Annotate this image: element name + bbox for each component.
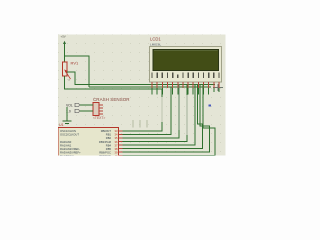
potentiometer RV1 bbox=[63, 62, 68, 76]
svg-text:OSC1/CLKIN: OSC1/CLKIN bbox=[60, 129, 76, 133]
wire mid rail bbox=[89, 86, 211, 88]
svg-text:RB6/PGC: RB6/PGC bbox=[99, 151, 111, 155]
blue origin marker bbox=[209, 104, 211, 106]
svg-text:35: 35 bbox=[115, 136, 118, 140]
pot wiper arrow bbox=[65, 71, 70, 79]
MCU U1 body bbox=[58, 128, 119, 168]
svg-text:LCD1: LCD1 bbox=[150, 37, 161, 42]
svg-text:RV1: RV1 bbox=[71, 61, 79, 66]
svg-text:CRASH SENSOR: CRASH SENSOR bbox=[93, 97, 130, 102]
LCD pin name glyph marks bbox=[152, 73, 219, 78]
wire bracket RB5 bbox=[123, 85, 203, 149]
power +5V symbol bbox=[64, 43, 66, 62]
svg-text:RB5: RB5 bbox=[106, 147, 112, 151]
wire bracket RB3 bbox=[123, 135, 188, 142]
LCD pin stubs bbox=[152, 82, 219, 88]
svg-text:RA1/AN1: RA1/AN1 bbox=[60, 143, 72, 147]
wire bracket RB2 bbox=[123, 130, 180, 138]
svg-text:U1: U1 bbox=[59, 123, 64, 127]
svg-text:VOL: VOL bbox=[66, 104, 73, 108]
svg-text:33: 33 bbox=[115, 129, 118, 133]
wire bracket RB0 bbox=[123, 122, 163, 131]
MCU right pin numbers bbox=[115, 129, 118, 158]
LCD LM016L body bbox=[150, 47, 222, 83]
svg-text:RB4: RB4 bbox=[106, 143, 112, 147]
MCU left pin labels bbox=[60, 129, 81, 158]
wire bracket RB7 bbox=[123, 85, 216, 156]
svg-text:34: 34 bbox=[115, 133, 118, 137]
wire +5V tee to right bbox=[65, 56, 90, 87]
svg-text:RA3/AN3/VREF+: RA3/AN3/VREF+ bbox=[60, 151, 81, 155]
wire bracket RB6 bbox=[123, 85, 210, 153]
green tails under LCD pins bbox=[152, 88, 219, 95]
svg-text:RB3/PGM: RB3/PGM bbox=[99, 140, 112, 144]
svg-text:RB0/INT: RB0/INT bbox=[101, 129, 112, 133]
svg-text:RA0/AN0: RA0/AN0 bbox=[60, 140, 72, 144]
svg-text:LM016L: LM016L bbox=[150, 43, 161, 47]
wire pot wiper rail bbox=[67, 72, 215, 85]
svg-text:RA2/AN2/VREF-: RA2/AN2/VREF- bbox=[60, 147, 80, 151]
page background bbox=[0, 0, 300, 168]
svg-text:36: 36 bbox=[115, 140, 118, 144]
LCD screen bbox=[153, 50, 219, 71]
sensor wires bbox=[80, 104, 93, 106]
schematic canvas bbox=[58, 35, 226, 156]
svg-text:<TEXT>: <TEXT> bbox=[93, 116, 105, 120]
ground terminal right bbox=[213, 84, 223, 91]
wire bracket RB4 bbox=[123, 85, 196, 146]
ground symbol bbox=[63, 121, 72, 124]
svg-text:38: 38 bbox=[115, 147, 118, 151]
wire probe drop bbox=[66, 107, 68, 121]
svg-text:39: 39 bbox=[115, 151, 118, 155]
faint MCU top stubs bbox=[133, 120, 147, 128]
svg-text:OSC2/CLKOUT: OSC2/CLKOUT bbox=[60, 133, 79, 137]
MCU right pin stubs bbox=[119, 131, 123, 156]
svg-text:RB1: RB1 bbox=[106, 133, 112, 137]
wire pot bottom rail bbox=[65, 76, 163, 89]
MCU right pin labels bbox=[99, 129, 112, 158]
svg-text:37: 37 bbox=[115, 143, 118, 147]
wire bracket RB1 bbox=[123, 87, 172, 135]
svg-text:+5V: +5V bbox=[61, 35, 66, 39]
svg-text:RB2: RB2 bbox=[106, 136, 112, 140]
sensor connector bbox=[93, 103, 99, 116]
